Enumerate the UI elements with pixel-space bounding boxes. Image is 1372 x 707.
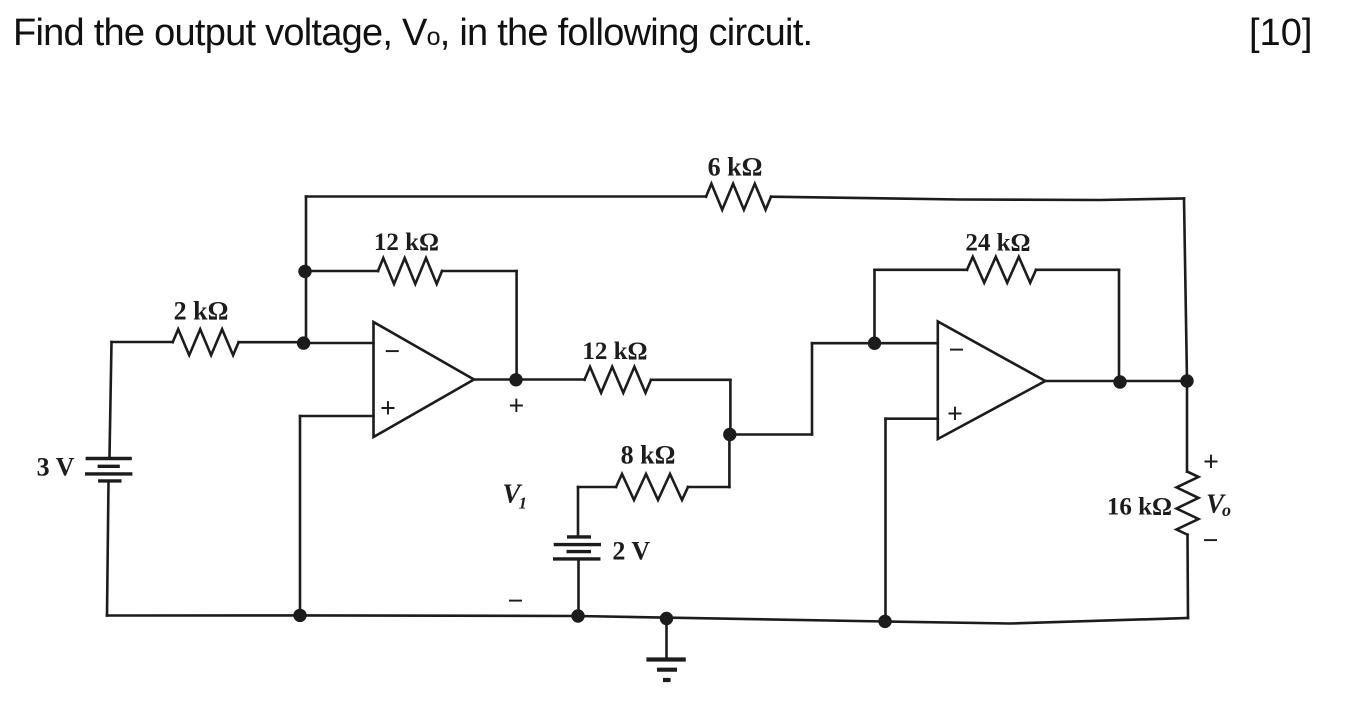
svg-text:−: −: [949, 335, 965, 366]
svg-text:16 kΩ: 16 kΩ: [1107, 494, 1172, 521]
svg-text:24 kΩ: 24 kΩ: [965, 230, 1030, 257]
svg-text:8 kΩ: 8 kΩ: [621, 441, 676, 470]
svg-text:+: +: [380, 393, 396, 424]
svg-text:−: −: [1203, 526, 1219, 557]
svg-text:12 kΩ: 12 kΩ: [374, 229, 439, 256]
svg-text:12 kΩ: 12 kΩ: [582, 338, 647, 365]
svg-text:−: −: [384, 337, 400, 368]
svg-text:V1: V1: [503, 479, 528, 513]
svg-text:+: +: [1203, 447, 1219, 478]
svg-text:Vo: Vo: [1206, 489, 1231, 521]
svg-text:+: +: [947, 399, 963, 430]
svg-text:6 kΩ: 6 kΩ: [708, 153, 763, 182]
svg-text:−: −: [508, 586, 524, 617]
svg-text:2 V: 2 V: [612, 537, 650, 566]
svg-text:+: +: [508, 391, 524, 422]
svg-text:2 kΩ: 2 kΩ: [174, 297, 229, 326]
svg-text:3 V: 3 V: [37, 453, 75, 482]
